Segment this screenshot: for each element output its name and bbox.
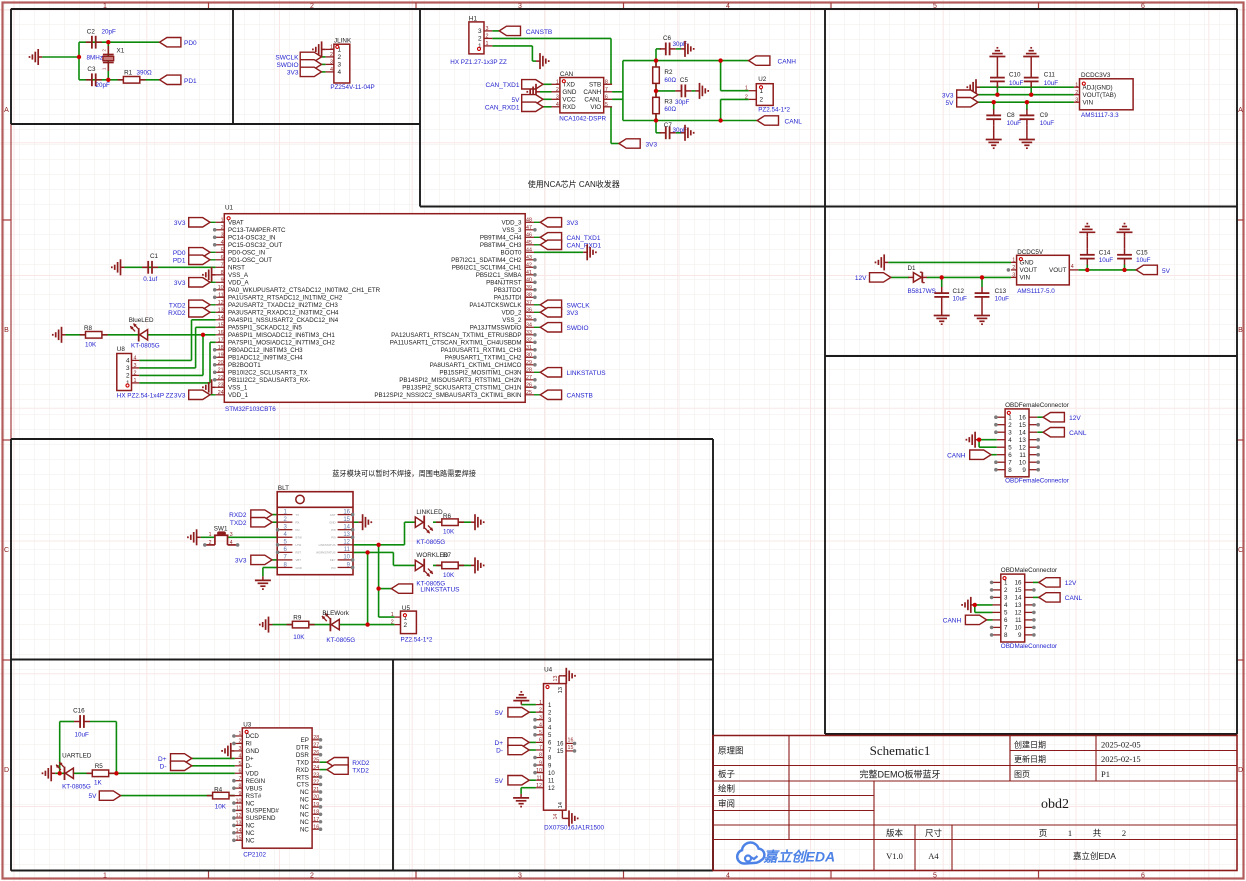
port CANH: [943, 615, 987, 624]
wire gnd to pin4 pin5: [975, 605, 993, 613]
svg-text:PB6I2C1_SCLTIM4_CH1: PB6I2C1_SCLTIM4_CH1: [452, 265, 522, 272]
svg-text:3V3: 3V3: [567, 220, 579, 227]
svg-text:RI: RI: [246, 741, 252, 748]
wire BLEWork row: [273, 624, 395, 626]
port 5V: [946, 98, 978, 107]
svg-text:R1: R1: [124, 70, 133, 77]
svg-text:2025-02-15: 2025-02-15: [1101, 754, 1141, 764]
port 3V3: [534, 308, 578, 317]
svg-text:BTW: BTW: [296, 536, 303, 540]
wire gnd to pin1: [521, 704, 536, 706]
svg-text:RX: RX: [296, 520, 300, 524]
svg-text:CANL: CANL: [584, 97, 601, 104]
LED BLEWork: [322, 610, 355, 644]
svg-text:C: C: [4, 547, 9, 554]
svg-text:PD0: PD0: [173, 250, 186, 257]
capacitor C14: [1080, 236, 1113, 264]
svg-text:6: 6: [221, 255, 224, 261]
svg-text:C13: C13: [995, 288, 1007, 295]
svg-text:3: 3: [1004, 595, 1008, 602]
port SWCLK: [534, 300, 590, 309]
svg-text:1: 1: [134, 378, 137, 384]
svg-text:PB0ADC12_IN8TIM3_CH3: PB0ADC12_IN8TIM3_CH3: [228, 347, 303, 354]
svg-text:创建日期: 创建日期: [1014, 740, 1046, 750]
wire CANH: [987, 619, 993, 621]
svg-text:PA4SPI1_NSSUSART2_CKADC12_IN4: PA4SPI1_NSSUSART2_CKADC12_IN4: [228, 317, 339, 324]
wire R3 bottom: [655, 113, 657, 121]
regulator U DCDC3V3 AMS1117-3.3: [1074, 72, 1133, 119]
junction: [1122, 268, 1126, 272]
svg-text:PB3JTDO: PB3JTDO: [494, 287, 522, 294]
wire C15 stub: [1124, 265, 1126, 270]
svg-text:14: 14: [558, 801, 564, 808]
svg-text:BLT: BLT: [278, 485, 289, 492]
resistor R5: [87, 763, 115, 787]
svg-text:C3: C3: [87, 66, 96, 73]
title block table: [713, 736, 1237, 871]
svg-text:7: 7: [1004, 625, 1008, 632]
svg-text:TXD2: TXD2: [230, 520, 247, 527]
svg-text:REGIN: REGIN: [246, 778, 266, 785]
svg-text:NC: NC: [300, 797, 309, 804]
svg-text:原理图: 原理图: [718, 746, 744, 756]
port 12V: [1043, 413, 1081, 422]
svg-text:10uF: 10uF: [1007, 120, 1022, 127]
svg-text:HX PZ1.27-1x3P ZZ: HX PZ1.27-1x3P ZZ: [450, 59, 507, 66]
port CANH: [749, 56, 797, 66]
port PD1: [173, 255, 216, 264]
svg-text:10uF: 10uF: [953, 295, 968, 302]
svg-text:DX07S016JA1R1500: DX07S016JA1R1500: [544, 824, 604, 831]
wire 3V3 to pin7: [272, 559, 277, 561]
svg-text:3: 3: [230, 532, 233, 538]
svg-text:PA15JTDI: PA15JTDI: [494, 295, 522, 302]
svg-text:6: 6: [1008, 452, 1012, 459]
svg-text:CANL: CANL: [785, 118, 803, 125]
svg-text:CANH: CANH: [943, 618, 962, 625]
svg-text:3: 3: [478, 28, 482, 35]
wire C8 stub: [993, 102, 995, 110]
svg-text:D+: D+: [495, 740, 504, 747]
port 3V3: [235, 555, 272, 564]
wire C5 mid node: [656, 83, 696, 98]
wire crystal gnd to node: [42, 56, 79, 58]
svg-text:PA8USART1_CKTIM1_CH1MCO: PA8USART1_CKTIM1_CH1MCO: [430, 362, 522, 369]
wire C1 to NRST: [125, 266, 216, 268]
ground: [359, 514, 372, 530]
svg-text:3V3: 3V3: [174, 280, 186, 287]
svg-text:42: 42: [526, 263, 532, 269]
svg-text:PD1-OSC_OUT: PD1-OSC_OUT: [228, 257, 272, 264]
svg-text:4: 4: [230, 540, 233, 546]
junction: [376, 543, 380, 547]
connector OBDFemaleConnector: [997, 402, 1069, 485]
junction: [718, 58, 722, 62]
svg-text:13: 13: [1019, 437, 1026, 444]
port CAN_TXD1: [486, 80, 543, 89]
svg-text:C1: C1: [150, 253, 159, 260]
svg-text:1: 1: [745, 86, 748, 92]
svg-text:SUSPEND: SUSPEND: [246, 815, 276, 822]
port 5V: [512, 95, 543, 104]
svg-text:CAN_RXD1: CAN_RXD1: [567, 242, 602, 249]
wire VOUT to 5V: [1078, 269, 1136, 271]
LED UARTLED: [56, 753, 92, 791]
svg-text:60Ω: 60Ω: [664, 106, 676, 113]
capacitor C3: [86, 66, 110, 89]
junction: [201, 333, 205, 337]
svg-text:PZ2.54-1*2: PZ2.54-1*2: [758, 107, 790, 114]
svg-text:C8: C8: [1007, 112, 1016, 119]
svg-text:RXD2: RXD2: [352, 760, 370, 767]
svg-text:4: 4: [330, 67, 333, 73]
wire 5V rail: [978, 101, 1074, 103]
wire pin12 to gnd: [521, 788, 536, 794]
svg-text:18: 18: [218, 345, 224, 351]
svg-text:审阅: 审阅: [718, 799, 735, 809]
svg-text:PB14SPI2_MISOUSART3_RTSTIM1_CH: PB14SPI2_MISOUSART3_RTSTIM1_CH2N: [399, 377, 521, 384]
wire C14 stub: [1086, 265, 1088, 270]
svg-text:VBUS: VBUS: [246, 785, 263, 792]
wire U2 pin2: [721, 99, 749, 120]
svg-text:P1: P1: [1101, 769, 1110, 779]
svg-text:3: 3: [486, 26, 489, 32]
svg-text:29: 29: [526, 360, 532, 366]
svg-text:DCD: DCD: [246, 733, 260, 740]
svg-text:8: 8: [1004, 632, 1008, 639]
port 3V3: [942, 90, 978, 99]
svg-text:C9: C9: [1040, 112, 1049, 119]
note CAN transceiver: [528, 179, 620, 189]
svg-text:26: 26: [526, 383, 532, 389]
ground: [30, 49, 43, 65]
svg-text:2: 2: [239, 739, 242, 745]
svg-text:RST: RST: [296, 551, 302, 555]
svg-text:A: A: [4, 107, 9, 114]
wire TXD2 flag: [320, 769, 327, 771]
svg-text:4: 4: [134, 355, 137, 361]
svg-text:PB4NJTRST: PB4NJTRST: [486, 280, 522, 287]
svg-text:6: 6: [539, 738, 542, 744]
svg-text:GND: GND: [329, 520, 335, 524]
svg-text:3V3: 3V3: [235, 558, 247, 565]
junction: [376, 586, 380, 590]
ground: [974, 312, 990, 325]
port D+: [158, 754, 192, 763]
capacitor C5: [675, 77, 691, 106]
connector JLINK: [326, 38, 375, 92]
port TXD2: [169, 300, 216, 309]
svg-text:NC: NC: [300, 826, 309, 833]
svg-text:3: 3: [221, 233, 224, 239]
svg-text:1: 1: [539, 700, 542, 706]
wire CANL rail: [623, 120, 757, 122]
svg-text:15: 15: [218, 323, 224, 329]
svg-text:3: 3: [518, 873, 522, 880]
svg-text:尺寸: 尺寸: [925, 828, 943, 838]
module BLT: [277, 485, 353, 575]
ground: [53, 327, 66, 343]
svg-text:35: 35: [526, 315, 532, 321]
svg-text:8: 8: [605, 80, 608, 86]
wire pin6 CANL: [612, 98, 623, 100]
IC U3 CP2102: [235, 722, 320, 859]
svg-text:VOUT: VOUT: [1049, 267, 1067, 274]
svg-text:C12: C12: [953, 288, 965, 295]
svg-text:CANH: CANH: [778, 59, 797, 66]
wire gnd to pin2 GND: [540, 91, 552, 93]
connector U5: [391, 605, 433, 643]
svg-text:22: 22: [218, 375, 224, 381]
svg-text:5: 5: [605, 102, 608, 108]
svg-text:15: 15: [557, 749, 564, 755]
svg-text:8: 8: [539, 753, 542, 759]
port 12V: [1039, 578, 1077, 587]
wire LINKSTATUS riser: [379, 545, 395, 617]
svg-text:41: 41: [526, 270, 532, 276]
svg-text:2: 2: [404, 622, 408, 629]
capacitor C9: [1020, 109, 1055, 135]
port RXD2: [168, 308, 215, 317]
junction: [973, 603, 977, 607]
LED BlueLED KT-0805G: [129, 317, 160, 350]
wire pin16 branch to U8 pin2: [139, 335, 203, 376]
svg-text:12V: 12V: [1069, 415, 1081, 422]
svg-text:D-: D-: [496, 748, 503, 755]
svg-text:NC: NC: [246, 830, 255, 837]
port CANH: [947, 450, 991, 459]
capacitor C11: [1024, 61, 1059, 88]
svg-text:OBDMaleConnector: OBDMaleConnector: [1001, 643, 1057, 650]
svg-text:STM32F103CBT6: STM32F103CBT6: [225, 406, 276, 413]
wire pin15 to U8 pin3: [139, 327, 215, 368]
wire C11 stub: [1030, 85, 1032, 95]
svg-text:PB12SPI2_NSSI2C2_SMBAUSART3_CK: PB12SPI2_NSSI2C2_SMBAUSART3_CKTIM1_BKIN: [374, 392, 521, 399]
svg-text:PA3USART2_RXADC12_IN3TIM2_CH4: PA3USART2_RXADC12_IN3TIM2_CH4: [228, 310, 339, 317]
svg-text:24: 24: [313, 765, 319, 771]
ground: [966, 432, 979, 448]
svg-text:10K: 10K: [85, 342, 97, 349]
wire CANL: [1033, 596, 1039, 598]
svg-text:19: 19: [218, 353, 224, 359]
svg-text:3V3: 3V3: [174, 220, 186, 227]
svg-text:5: 5: [539, 730, 542, 736]
svg-text:C6: C6: [663, 35, 672, 42]
svg-text:27: 27: [313, 742, 319, 748]
svg-text:PZ254V-11-04P: PZ254V-11-04P: [330, 84, 374, 91]
svg-text:3: 3: [1008, 429, 1012, 436]
svg-text:3V3: 3V3: [287, 70, 299, 77]
svg-text:3: 3: [239, 746, 242, 752]
svg-text:1: 1: [1004, 580, 1008, 587]
svg-text:CTS: CTS: [297, 782, 309, 789]
svg-text:SWDIO: SWDIO: [567, 325, 589, 332]
svg-text:TXD2: TXD2: [352, 767, 369, 774]
svg-text:RXD: RXD: [562, 104, 576, 111]
svg-text:PA6SPI1_MISOADC12_IN6TIM3_CH1: PA6SPI1_MISOADC12_IN6TIM3_CH1: [228, 332, 335, 339]
svg-text:4: 4: [539, 722, 542, 728]
svg-text:3: 3: [1075, 97, 1078, 103]
port PD1: [160, 75, 197, 85]
svg-text:VBT: VBT: [296, 558, 302, 562]
port SWCLK: [275, 52, 321, 61]
svg-text:KT-0805G: KT-0805G: [131, 343, 160, 350]
svg-text:60Ω: 60Ω: [664, 77, 676, 84]
svg-text:R9: R9: [293, 614, 302, 621]
capacitor C15: [1117, 236, 1151, 264]
svg-text:48: 48: [526, 218, 532, 224]
svg-text:Schematic1: Schematic1: [870, 743, 931, 758]
svg-text:DTR: DTR: [296, 744, 309, 751]
svg-text:OBDFemaleConnector: OBDFemaleConnector: [1005, 402, 1069, 409]
svg-text:PA2USART2_TXADC12_IN2TIM2_CH3: PA2USART2_TXADC12_IN2TIM2_CH3: [228, 302, 338, 309]
svg-text:1: 1: [1008, 414, 1012, 421]
port D-: [496, 745, 529, 754]
wire H1 pin2 to STB: [492, 38, 611, 84]
svg-text:PD1: PD1: [184, 78, 197, 85]
svg-text:31: 31: [526, 345, 532, 351]
svg-text:STB: STB: [589, 82, 601, 89]
svg-text:PD1: PD1: [173, 257, 186, 264]
svg-text:25: 25: [313, 757, 319, 763]
IC U1 STM32F103CBT6: [216, 204, 534, 413]
svg-text:47: 47: [526, 225, 532, 231]
svg-text:B5817WS: B5817WS: [908, 288, 936, 295]
wire D+ pin6: [529, 741, 536, 743]
svg-text:12: 12: [536, 783, 542, 789]
svg-text:10: 10: [218, 285, 224, 291]
svg-text:PA14JTCKSWCLK: PA14JTCKSWCLK: [469, 302, 522, 309]
svg-text:LINKSTATUS: LINKSTATUS: [420, 586, 460, 593]
svg-text:10uF: 10uF: [1040, 120, 1055, 127]
svg-text:3: 3: [330, 60, 333, 66]
wire SWDIO to pin3: [322, 63, 326, 65]
svg-text:11: 11: [548, 778, 555, 784]
svg-text:共: 共: [1093, 828, 1102, 838]
svg-text:NRST: NRST: [228, 265, 245, 272]
svg-text:2: 2: [1122, 828, 1126, 838]
svg-text:R5: R5: [95, 763, 104, 770]
svg-text:32: 32: [526, 338, 532, 344]
svg-text:34: 34: [526, 323, 532, 329]
svg-text:13: 13: [236, 821, 242, 827]
svg-text:D-: D-: [246, 763, 253, 770]
svg-text:4: 4: [221, 240, 224, 246]
ground: [313, 41, 326, 57]
svg-text:8MHz: 8MHz: [87, 55, 103, 62]
svg-text:3: 3: [556, 95, 559, 101]
svg-text:12: 12: [1015, 610, 1022, 617]
svg-text:5: 5: [239, 761, 242, 767]
svg-text:KEY: KEY: [330, 558, 336, 562]
svg-text:0.1uf: 0.1uf: [143, 276, 157, 283]
svg-text:30pF: 30pF: [675, 99, 690, 106]
port 3V3 at VDD_1: [174, 390, 216, 399]
port CAN_RXD1: [485, 102, 543, 111]
title block values: [859, 740, 1140, 813]
svg-text:3: 3: [126, 365, 130, 372]
wire H1 pin1 to gnd: [492, 46, 536, 61]
port D-: [160, 761, 192, 770]
svg-text:R4: R4: [214, 787, 223, 794]
port CANL: [1039, 593, 1083, 602]
svg-text:VCC: VCC: [562, 97, 576, 104]
power ground up: [1023, 48, 1039, 61]
svg-text:3V3: 3V3: [174, 392, 186, 399]
svg-text:5V: 5V: [946, 100, 955, 107]
junction: [58, 771, 62, 775]
capacitor C16: [73, 707, 90, 738]
port RXD2: [229, 510, 272, 519]
svg-text:6: 6: [239, 768, 242, 774]
port 5V: [1136, 265, 1171, 275]
svg-text:KT-0805G: KT-0805G: [326, 637, 355, 644]
svg-text:5: 5: [933, 873, 937, 880]
svg-text:5: 5: [221, 248, 224, 254]
svg-text:2: 2: [539, 707, 542, 713]
svg-text:30: 30: [526, 353, 532, 359]
svg-text:2: 2: [134, 370, 137, 376]
svg-text:39: 39: [526, 285, 532, 291]
svg-text:U1: U1: [225, 204, 234, 211]
svg-text:12: 12: [236, 813, 242, 819]
svg-text:PI2: PI2: [296, 528, 301, 532]
svg-text:17: 17: [313, 817, 319, 823]
wire R8 LED row to pin16: [66, 334, 216, 336]
connector OBDMaleConnector: [993, 567, 1058, 650]
svg-text:CP2102: CP2102: [243, 852, 266, 859]
svg-text:C15: C15: [1136, 250, 1148, 257]
svg-text:5V: 5V: [495, 710, 504, 717]
svg-text:B: B: [4, 327, 9, 334]
svg-text:44: 44: [526, 248, 532, 254]
svg-text:PB10I2C2_SCLUSART3_TX: PB10I2C2_SCLUSART3_TX: [228, 370, 307, 377]
svg-text:12V: 12V: [1065, 580, 1077, 587]
svg-text:23: 23: [313, 772, 319, 778]
ground: [471, 514, 484, 530]
svg-text:H1: H1: [469, 15, 478, 22]
svg-text:RST#: RST#: [246, 793, 262, 800]
svg-text:37: 37: [526, 300, 532, 306]
wire C6 branch: [656, 49, 681, 61]
wire gnd rail: [888, 261, 1011, 263]
svg-text:TXD2: TXD2: [169, 302, 186, 309]
ground: [536, 53, 549, 69]
svg-text:3V3: 3V3: [942, 92, 954, 99]
svg-text:完整DEMO板带蓝牙: 完整DEMO板带蓝牙: [859, 769, 940, 780]
wire CANH rail: [623, 60, 749, 62]
svg-text:4: 4: [239, 754, 242, 760]
svg-text:CANSTB: CANSTB: [526, 29, 552, 36]
svg-text:AMS1117-5.0: AMS1117-5.0: [1017, 288, 1055, 295]
svg-text:C7: C7: [664, 122, 673, 129]
wire 5V to pin11: [529, 779, 536, 781]
svg-text:1: 1: [209, 532, 212, 538]
svg-text:13: 13: [1015, 602, 1022, 609]
svg-text:TXD: TXD: [297, 759, 310, 766]
svg-text:EP: EP: [301, 737, 309, 744]
diode D1 B5817WS: [908, 265, 936, 295]
svg-text:10: 10: [1019, 459, 1026, 466]
svg-text:5V: 5V: [89, 793, 98, 800]
svg-text:14: 14: [343, 525, 350, 531]
svg-text:16: 16: [1015, 580, 1022, 587]
svg-text:VSS_3: VSS_3: [502, 227, 522, 234]
svg-text:DSR: DSR: [296, 752, 310, 759]
svg-text:C5: C5: [680, 77, 689, 84]
no-connect dots U4: [533, 718, 576, 775]
svg-text:板子: 板子: [718, 769, 736, 779]
